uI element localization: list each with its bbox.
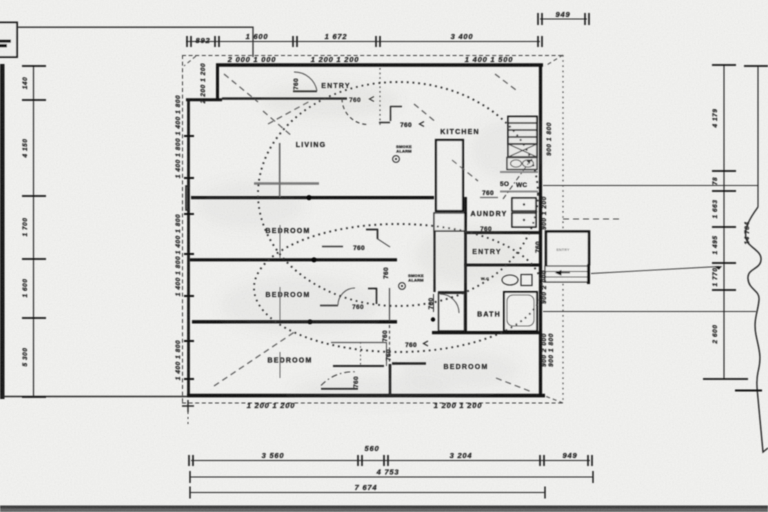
- bed3 diagonal dash: [214, 331, 296, 386]
- right outer wall: [539, 64, 542, 397]
- leader line to right dim: [591, 267, 719, 274]
- title box top-left: [0, 23, 17, 58]
- porch fill: [546, 232, 589, 266]
- wall laundry/entry: [464, 231, 541, 234]
- corner cross mark: [182, 400, 194, 412]
- dashed overhang bottom: [182, 402, 563, 404]
- entry inner door leaf: [293, 90, 317, 92]
- dotted ellipse upper: [258, 82, 538, 306]
- thin wall bed3: [279, 352, 281, 378]
- dashed overhang left: [182, 55, 184, 403]
- thin wall bed1: [279, 225, 281, 258]
- junction dot bed2: [307, 319, 312, 324]
- closet box bed3 top: [331, 342, 386, 344]
- shower wall top: [438, 291, 466, 294]
- dotted overhang right: [562, 55, 564, 403]
- entry inner door arc: [294, 72, 317, 91]
- diag dash 2: [263, 111, 293, 137]
- thin wall living: [279, 143, 281, 197]
- wall y197: [191, 196, 434, 199]
- wall bed1/bed2: [190, 258, 397, 261]
- dashed overhang top: [182, 55, 563, 57]
- bed1 door leader diagonal: [377, 239, 390, 248]
- closet box bed3 divider dotted: [360, 342, 362, 366]
- dim line 949: [540, 18, 587, 20]
- thin wall bed2: [279, 287, 281, 320]
- tick pair x189: [187, 36, 191, 47]
- bottom scan border strip: [0, 506, 768, 512]
- laundry tub 2: [512, 213, 536, 227]
- left dim line: [33, 66, 35, 397]
- bath door leaf: [433, 294, 435, 312]
- row1 tick pair right-b: [588, 455, 592, 466]
- bottom dim row1: [191, 460, 590, 462]
- right dim line: [723, 65, 725, 379]
- porch steps: [545, 266, 588, 282]
- wc leader arrow: [503, 161, 530, 199]
- row1 tick pair right-a: [540, 455, 544, 466]
- leader line from title box: [17, 27, 253, 57]
- junction dot bath: [431, 317, 435, 321]
- closet box bed3 right: [386, 342, 388, 366]
- right overall line: [757, 66, 759, 207]
- row1 tick pair left: [189, 455, 193, 466]
- diag dash 2b: [268, 100, 312, 124]
- wall entry/bath: [464, 264, 541, 267]
- dotted ellipse lower: [254, 224, 542, 352]
- toilet bath: [502, 275, 518, 285]
- diag dash 1: [224, 74, 258, 102]
- tick pair x217: [215, 36, 219, 47]
- upper-left wall segment: [216, 64, 219, 100]
- bottom outer wall: [187, 394, 545, 398]
- arrow mark entry door: [370, 97, 375, 102]
- hall wall x389 seg2 dashed: [389, 325, 391, 362]
- diag dash 4: [495, 74, 516, 90]
- bed4 diagonal dash: [496, 378, 532, 392]
- shower stall: [439, 293, 465, 331]
- top outer wall: [216, 63, 543, 66]
- overhang corner diagonal top-left: [184, 56, 196, 66]
- entry band wall: [222, 97, 347, 99]
- wardrobe corner bed1: [366, 229, 378, 239]
- tick pair x378: [376, 36, 380, 47]
- kitchen bench: [436, 140, 463, 211]
- left outer wall: [187, 99, 190, 397]
- steps arrow: [556, 271, 570, 275]
- left ticks: [22, 66, 46, 397]
- right ticks: [703, 65, 748, 379]
- dim line top row: [186, 41, 540, 43]
- porch steps right edge: [587, 264, 590, 284]
- smoke alarm symbol lower: [399, 283, 406, 290]
- left step wall: [186, 98, 222, 101]
- closet box bed3 bottom: [333, 365, 384, 367]
- long line y311: [543, 311, 756, 313]
- living divider wall: [279, 143, 281, 197]
- left scan border strip: [0, 64, 5, 399]
- tick pair x295: [293, 36, 297, 47]
- hall wall stub y363: [392, 362, 426, 364]
- diag dash 3: [414, 104, 437, 123]
- junction dot bed1: [311, 257, 316, 262]
- bottom dim row2: [190, 476, 593, 478]
- bed2 door arc: [338, 288, 355, 305]
- bed3 door leaf: [321, 388, 358, 390]
- bed2 door line: [320, 305, 338, 307]
- left wall window bracket upper: [186, 186, 190, 210]
- bed1 door line: [322, 246, 343, 248]
- dotted track x380: [379, 68, 381, 125]
- bottom dim row3: [190, 492, 545, 494]
- counter edge y191: [500, 191, 538, 193]
- overhang corner diagonal top-right: [545, 55, 563, 66]
- closet stub walls: [379, 106, 402, 123]
- wall bed2/bed3: [192, 320, 397, 323]
- overall dim bottom tick: [735, 390, 762, 392]
- diag dash 5: [452, 160, 478, 181]
- shower door arc: [440, 294, 459, 313]
- bed3 door arc: [321, 372, 356, 386]
- left wall window ticks: [184, 136, 194, 379]
- bottom scan strip highlight: [0, 509, 768, 512]
- wall bath bottom: [432, 331, 541, 334]
- row1 tick pair mid-a: [358, 455, 362, 466]
- overhang corner diagonal bottom-right: [545, 396, 563, 403]
- entry door dashed swing: [342, 99, 368, 125]
- bathtub: [504, 292, 537, 331]
- right overall tick: [744, 65, 768, 67]
- torn page curve: [746, 207, 768, 452]
- pantry stairs: [508, 117, 537, 145]
- dashed line y219: [563, 218, 620, 220]
- tick pair x540: [538, 36, 542, 47]
- wardrobe corner bed2: [368, 288, 377, 304]
- bed4 door arrow: [424, 341, 429, 346]
- wall kitchen/hall x434: [433, 231, 435, 292]
- laundry tub 1: [512, 198, 536, 211]
- junction dot: [306, 195, 311, 200]
- porch outline: [546, 232, 589, 266]
- hall wall x390 bottom: [389, 364, 392, 396]
- arrow mark kitchen door: [420, 122, 425, 127]
- scan smudges: [195, 82, 550, 404]
- long line y185: [543, 185, 758, 187]
- wc door line: [480, 197, 498, 199]
- kitchen sink: [507, 158, 537, 170]
- living shelf line: [254, 182, 319, 185]
- hall/laundry divider wall: [464, 197, 467, 333]
- pantry shelves X: [508, 144, 537, 157]
- kitchen sink unit: [434, 213, 466, 231]
- hall wall x389 seg1: [389, 288, 391, 321]
- smoke alarm symbol upper: [393, 156, 400, 163]
- row1 tick pair mid-b: [384, 455, 388, 466]
- ground line: [0, 396, 188, 398]
- counter edge y172: [500, 171, 538, 173]
